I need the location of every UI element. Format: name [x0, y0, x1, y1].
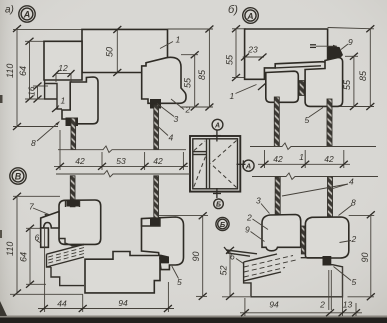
- meeting gap hatch (B): [301, 226, 305, 254]
- callout 8 (B): [339, 198, 357, 216]
- bottom dimension 44 94 (V): [38, 298, 174, 312]
- svg-text:9: 9: [348, 37, 353, 47]
- trim angular piece (V): [41, 212, 59, 229]
- svg-text:1: 1: [230, 91, 235, 101]
- sash drip piece (V): [59, 239, 84, 246]
- paper tone mottling: [0, 0, 1, 1]
- meeting gap hatch (b): [299, 81, 304, 96]
- trim strip below (V): [41, 228, 49, 247]
- bottom extension verticals B: [244, 298, 246, 316]
- right sash profile (a): [142, 57, 186, 103]
- left wall block: [44, 41, 82, 80]
- glass lines in base (B, dim 2): [328, 270, 330, 310]
- svg-text:55: 55: [183, 77, 193, 88]
- inner strip line: [275, 66, 321, 68]
- section mark top: [212, 119, 223, 141]
- dimension 64 (left): [18, 38, 34, 103]
- frame head block (big): [82, 29, 171, 72]
- svg-text:94: 94: [118, 298, 128, 308]
- svg-text:1: 1: [176, 35, 181, 45]
- top cut line B with break: [252, 173, 378, 180]
- svg-text:6: 6: [230, 252, 235, 262]
- dimension 110 (left V): [5, 193, 21, 297]
- svg-text:2: 2: [185, 105, 191, 115]
- dimension 50 (inside block): [105, 26, 122, 76]
- dimension 90 (right B): [348, 211, 375, 300]
- drip step (V): [47, 254, 85, 285]
- dimension 52 (left B): [219, 247, 251, 300]
- sash lip box (V): [142, 218, 161, 226]
- svg-text:55: 55: [225, 54, 235, 65]
- dimension 85 (right of b): [328, 25, 375, 110]
- svg-text:8: 8: [351, 198, 356, 208]
- view circle A (b): [243, 8, 259, 24]
- glass bar right (B): [328, 177, 333, 222]
- svg-text:9: 9: [245, 225, 250, 235]
- svg-text:4: 4: [349, 177, 354, 187]
- svg-text:Б: Б: [216, 202, 221, 209]
- base slab (V): [85, 252, 160, 293]
- svg-text:90: 90: [191, 251, 201, 261]
- left sash (B): [262, 215, 301, 251]
- svg-text:7: 7: [29, 202, 34, 212]
- callout 3: [157, 104, 179, 125]
- glass hatched bar right (a): [154, 105, 159, 150]
- callout 5 (B): [334, 267, 357, 288]
- seal corner details (b, dark): [328, 46, 343, 63]
- callout 8: [31, 122, 60, 149]
- svg-text:110: 110: [5, 64, 15, 78]
- otliv double line (B): [224, 247, 257, 256]
- dimension 55 (left of b): [225, 25, 247, 81]
- svg-text:А: А: [214, 123, 220, 130]
- view circle A: [19, 6, 35, 22]
- dimension 110 (left): [5, 25, 21, 130]
- cut line bottom of a with break: [58, 146, 186, 153]
- svg-text:16: 16: [27, 86, 37, 96]
- svg-text:4: 4: [169, 133, 174, 143]
- bottom extension verticals V: [44, 228, 46, 312]
- right sash + frame bottom rail (V): [142, 217, 184, 270]
- callout 1 (top): [160, 35, 181, 49]
- fortochka divider: [193, 151, 207, 153]
- shared dimension line 42 53 42: [54, 156, 188, 170]
- elevation outer frame: [190, 136, 240, 192]
- dimension 64 (left V): [19, 225, 35, 288]
- callout 2: [171, 99, 191, 115]
- svg-text:94: 94: [269, 300, 279, 310]
- callout 9: [310, 37, 353, 50]
- seal corner (V dark): [159, 255, 169, 264]
- svg-text:б): б): [228, 4, 238, 16]
- callout 9 left (B): [245, 225, 265, 242]
- svg-text:3: 3: [256, 196, 261, 206]
- svg-text:23: 23: [247, 45, 258, 55]
- svg-text:5: 5: [177, 277, 182, 287]
- svg-text:3: 3: [174, 114, 179, 124]
- svg-text:110: 110: [5, 242, 15, 256]
- svg-text:42: 42: [75, 156, 85, 166]
- callout 4 (B): [282, 177, 354, 197]
- view circle V: [10, 168, 26, 184]
- dashes right pane: [194, 141, 237, 188]
- svg-text:1: 1: [61, 96, 66, 106]
- base block (B): [244, 262, 343, 297]
- dimension 55 (right of a): [181, 51, 199, 110]
- svg-text:А: А: [246, 11, 253, 21]
- svg-text:42: 42: [153, 156, 163, 166]
- svg-text:А: А: [23, 10, 31, 20]
- svg-text:2: 2: [319, 300, 325, 310]
- svg-text:85: 85: [197, 69, 207, 80]
- ledge line under wall block: [44, 80, 62, 109]
- extension lines left quadrant a: [13, 28, 82, 30]
- svg-text:12: 12: [58, 63, 68, 73]
- svg-text:2: 2: [351, 234, 357, 244]
- svg-text:а): а): [5, 5, 14, 16]
- extension verticals for bottom dims a: [59, 130, 61, 170]
- svg-text:Б: Б: [220, 220, 226, 229]
- svg-text:5: 5: [305, 115, 310, 125]
- svg-text:55: 55: [342, 79, 352, 90]
- callout 2 left (B): [246, 213, 268, 230]
- svg-text:А: А: [245, 162, 251, 171]
- svg-text:53: 53: [116, 156, 126, 166]
- right sash (b): [305, 58, 343, 107]
- glass bar left (V): [70, 176, 75, 207]
- svg-text:90: 90: [360, 252, 370, 262]
- bottom scan black band: [0, 317, 387, 323]
- glass hatched bar left (a): [71, 118, 76, 150]
- left sash profile: [62, 77, 98, 124]
- svg-text:5: 5: [352, 277, 357, 287]
- dimension 85 (right of a): [168, 26, 214, 111]
- frame head block (b): [245, 29, 328, 79]
- callout 3 (B): [256, 196, 270, 214]
- section mark right: [237, 160, 255, 171]
- dimension 12: [53, 63, 75, 82]
- bottom dimension 94 2 13 (B): [240, 300, 362, 317]
- callout 2 right (B): [340, 234, 357, 244]
- callout 5 (V): [172, 266, 182, 287]
- svg-text:8: 8: [31, 138, 36, 148]
- dimension line 42 1 42 (b): [258, 152, 350, 168]
- dimension 16 (left): [27, 83, 42, 103]
- right sash (B): [305, 217, 348, 258]
- callout 7: [29, 202, 49, 217]
- left sash seal (dark): [66, 118, 79, 127]
- callout 5 (b): [305, 108, 324, 126]
- view circle B label: [216, 217, 229, 230]
- svg-text:13: 13: [343, 300, 353, 310]
- cut line bottom of b with break: [250, 143, 376, 150]
- glass bar right (V): [154, 176, 159, 218]
- callout 1 (b): [230, 83, 267, 101]
- callout 6 (B): [230, 252, 244, 264]
- dimension 55 inner right (b): [342, 53, 358, 110]
- svg-text:64: 64: [19, 252, 29, 262]
- svg-text:44: 44: [57, 299, 67, 309]
- svg-text:2: 2: [246, 213, 252, 223]
- glass bar right (b): [327, 99, 332, 147]
- window board dashed (B): [244, 254, 298, 281]
- svg-text:85: 85: [358, 70, 368, 81]
- left sash (b): [266, 71, 299, 102]
- callout 6 (V): [35, 233, 42, 244]
- glass bar left (B): [275, 177, 280, 225]
- window board dashed (V): [47, 244, 85, 267]
- svg-text:50: 50: [105, 47, 115, 57]
- section mark bottom: [213, 188, 223, 209]
- extension lines V: [13, 195, 60, 197]
- glass bar left (b): [274, 97, 279, 147]
- svg-text:52: 52: [219, 265, 229, 275]
- dimension 23: [241, 45, 267, 61]
- top cut line V with break: [56, 171, 190, 178]
- svg-text:1: 1: [299, 152, 304, 162]
- seal corner (B dark): [323, 256, 332, 266]
- left edge scan artifacts: [0, 95, 3, 103]
- glass slot notch left (V): [66, 200, 80, 207]
- svg-text:42: 42: [273, 154, 283, 164]
- extension verticals bottom b: [264, 150, 266, 168]
- dimension 90 (right V): [159, 212, 208, 300]
- left sash (V): [59, 200, 101, 244]
- svg-text:42: 42: [324, 154, 334, 164]
- mullion: [206, 139, 208, 189]
- callout 4: [158, 126, 174, 143]
- right sash seal (dark): [150, 99, 161, 109]
- svg-text:64: 64: [18, 66, 28, 76]
- svg-text:В: В: [15, 172, 22, 182]
- small callout 1: [52, 96, 66, 113]
- frame bottom piece under sashes (B): [301, 258, 333, 265]
